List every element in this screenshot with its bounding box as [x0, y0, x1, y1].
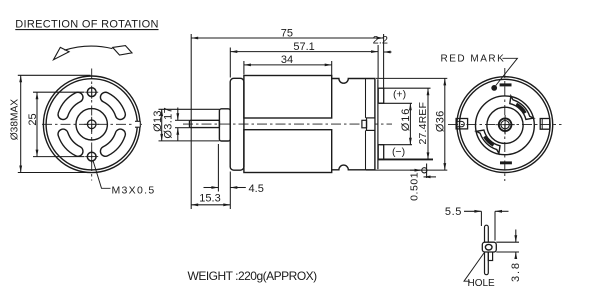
svg-text:WEIGHT :220g(APPROX): WEIGHT :220g(APPROX) — [188, 269, 318, 283]
svg-text:4.5: 4.5 — [249, 183, 264, 195]
svg-text:(−): (−) — [392, 146, 405, 158]
svg-text:25: 25 — [27, 113, 39, 125]
svg-text:75: 75 — [281, 27, 293, 39]
svg-text:Ø3.17: Ø3.17 — [162, 107, 174, 139]
svg-text:0.501: 0.501 — [409, 172, 421, 201]
svg-text:3.8: 3.8 — [510, 261, 522, 282]
svg-text:Ø36: Ø36 — [435, 110, 447, 132]
svg-text:57.1: 57.1 — [293, 41, 314, 53]
svg-text:Ø16: Ø16 — [400, 108, 412, 132]
svg-text:27.4REF: 27.4REF — [417, 102, 429, 145]
svg-text:2.2: 2.2 — [373, 35, 388, 47]
svg-text:RED MARK: RED MARK — [441, 53, 506, 64]
svg-text:HOLE: HOLE — [468, 278, 496, 289]
svg-text:M3X0.5: M3X0.5 — [112, 185, 156, 197]
svg-text:34: 34 — [281, 54, 293, 66]
svg-text:DIRECTION OF ROTATION: DIRECTION OF ROTATION — [15, 18, 158, 30]
svg-text:5.5: 5.5 — [445, 206, 462, 218]
svg-text:Ø38MAX: Ø38MAX — [10, 99, 21, 141]
svg-text:15.3: 15.3 — [199, 192, 220, 204]
svg-text:(+): (+) — [393, 89, 406, 101]
